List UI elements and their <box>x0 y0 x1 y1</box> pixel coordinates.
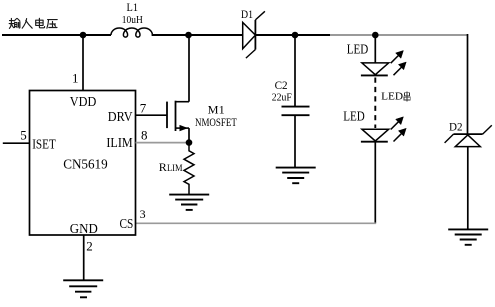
svg-text:ISET: ISET <box>32 137 56 152</box>
drain horizontal <box>176 101 190 103</box>
wire: node A down to VDD pin 1 <box>82 35 84 91</box>
svg-text:C2: C2 <box>275 80 288 92</box>
输 <box>9 18 20 28</box>
node E junction dot <box>186 139 193 146</box>
capacitor C2 <box>272 35 310 168</box>
wire: ILIM pin 8 to node E (gray) <box>136 142 190 144</box>
svg-text:NMOSFET: NMOSFET <box>195 117 237 129</box>
电 <box>36 18 45 28</box>
wire: right corner down to D2 <box>467 34 469 134</box>
svg-text:L1: L1 <box>127 2 139 14</box>
wire: GND pin 2 down <box>83 235 85 280</box>
svg-text:D1: D1 <box>241 9 253 21</box>
ground (RLIM) <box>169 195 209 210</box>
svg-text:LED: LED <box>347 41 369 56</box>
svg-text:ILIM: ILIM <box>106 135 132 150</box>
ground (IC GND) <box>63 280 103 297</box>
ground (C2) <box>276 168 316 184</box>
入 <box>22 19 32 29</box>
node D junction dot (LED tap) <box>372 32 379 39</box>
wire: LED2 cathode down <box>374 142 376 224</box>
node B junction dot <box>185 32 192 39</box>
串 glyph <box>404 91 410 101</box>
transistor M1 NMOSFET <box>167 35 237 143</box>
inductor L1 <box>111 2 152 37</box>
wire: node C to right corner (gray) <box>330 34 468 36</box>
drain wire from node B <box>188 35 190 102</box>
op IC U1 CN5619 box <box>30 91 136 236</box>
diode D1 (zener, anode left) <box>241 9 265 58</box>
svg-text:1: 1 <box>72 70 79 85</box>
channel bar <box>175 101 177 131</box>
svg-text:5: 5 <box>20 128 27 143</box>
svg-text:M1: M1 <box>208 102 225 116</box>
svg-text:7: 7 <box>140 101 147 116</box>
LED2 <box>343 108 406 141</box>
wire: L1 to node B <box>152 34 188 36</box>
wire: input to node A <box>2 34 83 36</box>
压 <box>47 20 57 29</box>
svg-text:D2: D2 <box>449 121 463 133</box>
wire: node B to D1 anode <box>189 34 243 36</box>
source vertical <box>188 128 190 143</box>
svg-text:LIM: LIM <box>167 164 183 174</box>
node A junction dot <box>80 32 87 39</box>
wire: ISET pin 5 stub <box>3 142 30 144</box>
wire: DRV pin 7 to gate <box>136 114 168 116</box>
svg-text:2: 2 <box>86 239 93 254</box>
svg-text:22uF: 22uF <box>272 93 292 104</box>
diode D2 (zener, cathode up) <box>445 121 492 229</box>
svg-text:GND: GND <box>70 221 98 236</box>
dashed wire (LED string) <box>374 78 376 129</box>
label LED串 <box>381 91 410 103</box>
wire: CS run (gray) <box>136 222 377 224</box>
svg-text:VDD: VDD <box>70 94 97 109</box>
gate bar <box>166 102 168 129</box>
ground (D2) <box>448 229 488 244</box>
source horizontal with arrow <box>176 127 190 129</box>
wire: D1 cathode to node C <box>255 34 330 36</box>
label 输入电压 (input voltage) <box>9 18 57 28</box>
wire: node A to L1 <box>83 34 111 36</box>
node C junction dot (C2 tap) <box>292 32 299 39</box>
svg-text:10uH: 10uH <box>122 15 143 26</box>
svg-text:LED: LED <box>381 91 403 103</box>
wire: node D down to LED1 <box>374 35 376 63</box>
svg-text:CS: CS <box>120 216 134 231</box>
svg-text:3: 3 <box>140 207 146 221</box>
svg-text:R: R <box>159 160 167 174</box>
svg-text:8: 8 <box>141 127 148 142</box>
svg-text:CN5619: CN5619 <box>63 157 108 172</box>
svg-text:LED: LED <box>343 108 365 123</box>
resistor RLIM <box>159 143 194 195</box>
LED1 <box>347 41 406 75</box>
svg-text:DRV: DRV <box>108 109 133 124</box>
